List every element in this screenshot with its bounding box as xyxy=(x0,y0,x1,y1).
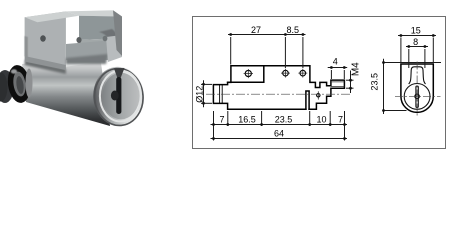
svg-text:8.5: 8.5 xyxy=(287,25,300,35)
svg-text:Ø12: Ø12 xyxy=(195,86,205,103)
svg-text:23.5: 23.5 xyxy=(370,73,380,91)
svg-text:16.5: 16.5 xyxy=(238,114,256,124)
svg-text:27: 27 xyxy=(251,25,261,35)
svg-text:7: 7 xyxy=(219,114,224,124)
svg-text:8: 8 xyxy=(413,37,418,47)
svg-text:15: 15 xyxy=(411,25,421,35)
svg-text:10: 10 xyxy=(316,114,326,124)
svg-text:23.5: 23.5 xyxy=(275,114,293,124)
svg-text:7: 7 xyxy=(338,114,343,124)
svg-text:M4: M4 xyxy=(350,62,361,76)
svg-text:64: 64 xyxy=(274,129,284,139)
svg-text:4: 4 xyxy=(333,56,338,66)
